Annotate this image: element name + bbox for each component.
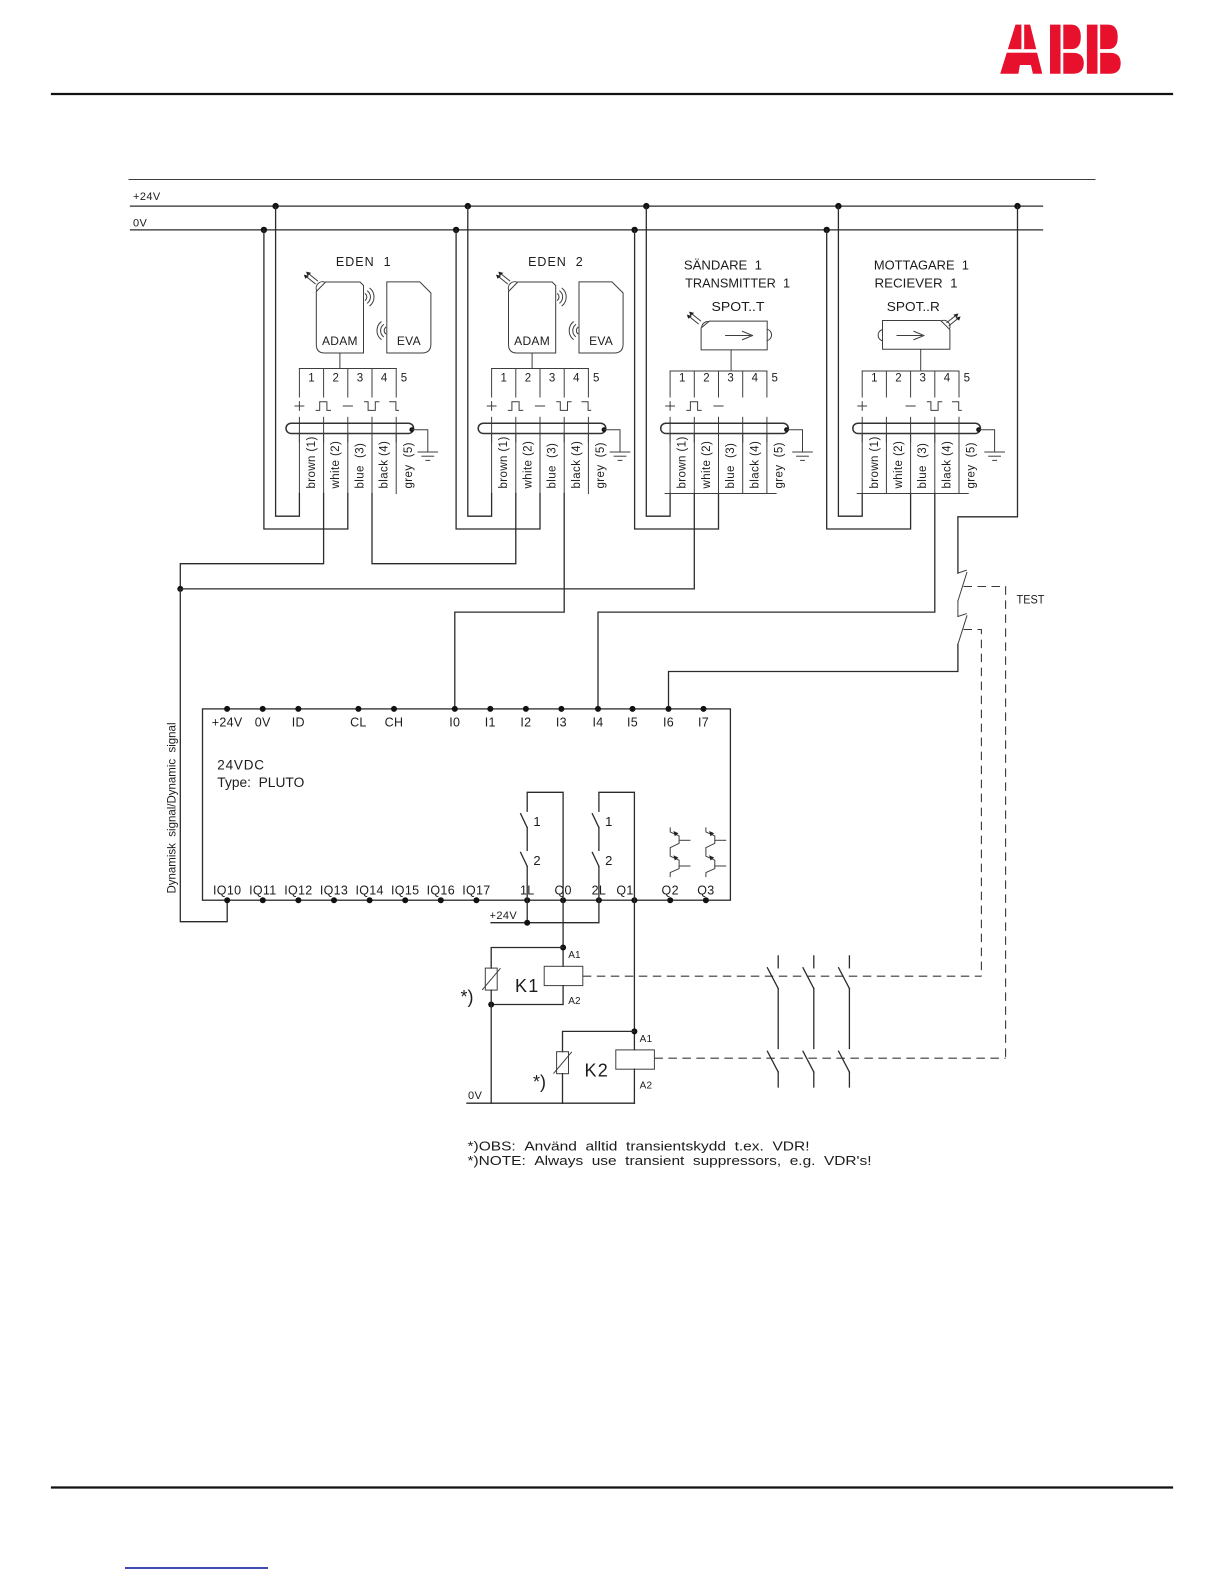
TEST switch contact a bbox=[958, 570, 967, 601]
EDEN 1 pin function symbols bbox=[295, 402, 399, 411]
EDEN 2 upper coded-signal arcs bbox=[557, 288, 566, 306]
svg-text:0V: 0V bbox=[133, 218, 148, 230]
+24V supply stub line to 1L and 2L bbox=[491, 900, 599, 923]
SPOT..T +24V tap junction bbox=[643, 203, 649, 209]
EDEN 1 wire stubs through cable bbox=[299, 417, 396, 442]
safety PLC PLUTO outline bbox=[203, 709, 731, 900]
svg-text:1: 1 bbox=[871, 372, 877, 384]
EDEN 2 0V tap junction bbox=[453, 227, 459, 233]
K1 coil actuator dashed line bbox=[583, 975, 982, 977]
EDEN 1 ADAM connector boss bbox=[316, 282, 325, 291]
svg-text:A1: A1 bbox=[640, 1034, 653, 1045]
relay contact 1 at 598.9 bbox=[592, 814, 612, 851]
svg-text:4: 4 bbox=[752, 372, 759, 384]
svg-text:1: 1 bbox=[605, 814, 612, 829]
PLUTO bottom terminals bbox=[224, 897, 709, 903]
K1 main contact phase 1 bbox=[767, 956, 778, 989]
EDEN 2 EVA housing bbox=[579, 282, 623, 353]
svg-text:I6: I6 bbox=[663, 715, 674, 729]
svg-text:ADAM: ADAM bbox=[514, 334, 550, 348]
device block titles SPOT..R bbox=[874, 259, 969, 315]
EDEN 2 pin numbers 1 2 3 4 5 bbox=[500, 372, 599, 384]
svg-text:TEST: TEST bbox=[1017, 592, 1046, 606]
svg-text:ADAM: ADAM bbox=[322, 334, 358, 348]
relay contact 1 at 527.2 bbox=[521, 814, 541, 851]
svg-text:black (4): black (4) bbox=[571, 441, 583, 489]
EDEN 2 pin terminal lines 1-5 bbox=[492, 369, 589, 398]
SPOT..T cable shield junction bbox=[784, 427, 789, 432]
TEST actuator dashed link to K1 contacts bbox=[964, 630, 982, 977]
EDEN 2 earth ground symbol bbox=[610, 452, 630, 460]
EDEN 1 +24V drop wire to pin 1 (brown) bbox=[276, 206, 300, 516]
wire EDEN1 black to EDEN2 white (dynamic chain) bbox=[372, 494, 516, 564]
wire EDEN1 white (dynamic signal in) to node D bbox=[180, 494, 323, 589]
SPOT..R shield wire to earth bbox=[979, 430, 995, 452]
SPOT..R 0V tap junction bbox=[824, 227, 830, 233]
svg-text:blue (3): blue (3) bbox=[725, 443, 737, 489]
svg-text:24VDC: 24VDC bbox=[217, 758, 265, 773]
wire +24V rail to TEST switch bbox=[1014, 203, 1020, 209]
EDEN 1 ADAM cable arrow bbox=[304, 272, 318, 284]
svg-text:*)NOTE: Always use transien: *)NOTE: Always use transient suppressors… bbox=[468, 1154, 872, 1168]
varistor at K1 bbox=[483, 968, 501, 990]
relay contact 2 at 527.2 bbox=[521, 852, 541, 900]
svg-text:EDEN 2: EDEN 2 bbox=[528, 255, 584, 269]
svg-text:CL: CL bbox=[350, 715, 367, 729]
svg-text:Type: PLUTO: Type: PLUTO bbox=[217, 775, 304, 790]
SPOT..T beam arrow bbox=[726, 331, 753, 339]
EDEN 2 lower coded-signal arcs bbox=[569, 322, 578, 340]
wire Q0 to K1 A1 bbox=[562, 900, 564, 966]
wire K1 A2 node to 0V bbox=[490, 1005, 492, 1104]
svg-text:I4: I4 bbox=[592, 715, 603, 729]
wire Q1 to K2 A1 bbox=[633, 900, 635, 1050]
wire EDEN2 black to input I0 bbox=[455, 494, 564, 709]
EDEN 2 pin function symbols bbox=[487, 402, 591, 411]
SPOT..T earth ground symbol bbox=[793, 452, 813, 460]
svg-text:brown (1): brown (1) bbox=[869, 436, 881, 488]
EDEN 1 +24V tap junction bbox=[272, 203, 278, 209]
K2 main contact phase 3 bbox=[839, 1051, 850, 1087]
svg-text:IQ12: IQ12 bbox=[284, 883, 312, 897]
SPOT..R housing bbox=[883, 321, 950, 350]
TEST actuator dashed link to K2 contacts bbox=[964, 587, 1006, 1059]
svg-text:2: 2 bbox=[525, 372, 531, 384]
EDEN 2 cable sheath bbox=[478, 423, 606, 433]
EDEN 2 +24V tap junction bbox=[465, 203, 471, 209]
TEST switch link a-b bbox=[957, 601, 959, 617]
K1 main contact phase 2 bbox=[803, 956, 814, 989]
svg-text:K2: K2 bbox=[585, 1061, 609, 1081]
SPOT..R conductor labels bbox=[869, 436, 978, 489]
svg-text:black (4): black (4) bbox=[749, 441, 761, 489]
svg-text:CH: CH bbox=[385, 715, 404, 729]
svg-text:+24V: +24V bbox=[490, 910, 518, 922]
SPOT..R pin header top line bbox=[862, 370, 959, 372]
svg-text:4: 4 bbox=[573, 372, 580, 384]
svg-text:grey (5): grey (5) bbox=[966, 442, 978, 488]
ABB logo bbox=[998, 25, 1123, 74]
svg-text:*): *) bbox=[461, 987, 474, 1007]
wire node D to transmitter white bbox=[180, 494, 694, 589]
svg-text:1: 1 bbox=[533, 814, 540, 829]
PLUTO top terminals bbox=[224, 706, 706, 712]
svg-text:IQ14: IQ14 bbox=[355, 883, 383, 897]
wire node D to IQ10 bbox=[180, 589, 227, 922]
svg-text:+24V: +24V bbox=[133, 191, 161, 203]
diagram top border line bbox=[129, 179, 1095, 181]
svg-text:0V: 0V bbox=[255, 715, 271, 729]
header rule bbox=[52, 93, 1172, 95]
EDEN 1 EVA housing bbox=[387, 282, 431, 353]
svg-text:1: 1 bbox=[500, 372, 506, 384]
K2 coil actuator dashed line bbox=[654, 1057, 1005, 1059]
contactor coil K1 bbox=[544, 966, 583, 985]
svg-text:3: 3 bbox=[919, 372, 925, 384]
SPOT..R conductor lines in label area bbox=[862, 434, 959, 494]
SPOT..R connector boss bbox=[941, 320, 950, 329]
svg-text:2: 2 bbox=[533, 853, 540, 868]
EDEN 1 pin numbers 1 2 3 4 5 bbox=[308, 372, 407, 384]
svg-text:black (4): black (4) bbox=[379, 441, 391, 489]
SPOT..T shield wire to earth bbox=[787, 430, 803, 452]
EDEN 1 conductor lines in label area bbox=[299, 434, 396, 494]
EDEN 2 cable shield junction bbox=[602, 427, 607, 432]
svg-text:3: 3 bbox=[357, 372, 363, 384]
SPOT..R +24V drop wire to pin 1 (brown) bbox=[838, 206, 862, 516]
SPOT..R unused-pin end line bbox=[857, 493, 968, 495]
svg-text:I1: I1 bbox=[485, 715, 496, 729]
SPOT..T conductor labels bbox=[677, 436, 786, 489]
svg-text:black (4): black (4) bbox=[941, 441, 953, 489]
EDEN 2 ADAM connector boss bbox=[508, 282, 517, 291]
PLUTO bottom terminal labels bbox=[213, 883, 714, 897]
K2 varistor lower wire bbox=[562, 1074, 564, 1104]
+24V rail bbox=[131, 205, 1043, 207]
K2 main contact phase 2 bbox=[803, 1051, 814, 1087]
svg-text:IQ13: IQ13 bbox=[320, 883, 348, 897]
svg-text:I7: I7 bbox=[698, 715, 709, 729]
SPOT..T wire stubs through cable bbox=[670, 417, 767, 442]
PLUTO semiconductor output symbol at 705.9 bbox=[706, 828, 726, 877]
K2 main contact phase 1 bbox=[767, 1051, 778, 1087]
svg-text:5: 5 bbox=[964, 372, 970, 384]
svg-text:Q2: Q2 bbox=[662, 883, 679, 897]
SPOT..R wire stubs through cable bbox=[862, 417, 959, 442]
footer link underline bbox=[125, 1567, 268, 1569]
svg-text:MOTTAGARE 1: MOTTAGARE 1 bbox=[874, 259, 969, 273]
svg-text:RECIEVER 1: RECIEVER 1 bbox=[875, 277, 958, 291]
svg-text:SPOT..T: SPOT..T bbox=[712, 300, 765, 314]
SPOT..R pigtail bbox=[920, 350, 922, 371]
svg-text:SPOT..R: SPOT..R bbox=[887, 300, 940, 314]
svg-text:5: 5 bbox=[593, 372, 599, 384]
SPOT..R beam arrow bbox=[897, 331, 924, 339]
device block titles SPOT..T bbox=[684, 259, 790, 315]
SPOT..T cable sheath bbox=[661, 423, 789, 433]
EDEN 2 pin header top line bbox=[492, 368, 589, 370]
EDEN 2 ADAM pigtail bbox=[531, 353, 533, 369]
svg-text:EVA: EVA bbox=[397, 334, 421, 348]
svg-text:I3: I3 bbox=[556, 715, 567, 729]
SPOT..R cable sheath bbox=[853, 423, 981, 433]
svg-text:SÄNDARE 1: SÄNDARE 1 bbox=[684, 259, 762, 273]
svg-text:IQ17: IQ17 bbox=[462, 883, 490, 897]
svg-text:2: 2 bbox=[703, 372, 709, 384]
svg-text:I0: I0 bbox=[449, 715, 460, 729]
svg-text:3: 3 bbox=[727, 372, 733, 384]
K1 A2 wire bbox=[491, 986, 563, 1005]
EDEN 1 0V drop wire to pin 3 (blue) bbox=[264, 230, 348, 529]
wire receiver black to input I4 bbox=[598, 494, 935, 709]
EDEN 1 lower coded-signal arcs bbox=[377, 322, 386, 340]
TEST switch contact b bbox=[958, 614, 967, 645]
svg-text:4: 4 bbox=[381, 372, 388, 384]
svg-text:brown (1): brown (1) bbox=[498, 436, 510, 488]
svg-text:5: 5 bbox=[401, 372, 407, 384]
phase 2 link bbox=[813, 989, 815, 1049]
EDEN 1 0V tap junction bbox=[261, 227, 267, 233]
K2 varistor branch wire bbox=[563, 1031, 635, 1051]
node D junction bbox=[177, 586, 183, 592]
svg-text:Q1: Q1 bbox=[616, 883, 633, 897]
EDEN 2 shield wire to earth bbox=[604, 430, 620, 452]
EDEN 2 +24V drop wire to pin 1 (brown) bbox=[468, 206, 492, 516]
SPOT..R pin function symbols bbox=[858, 402, 962, 411]
svg-text:TRANSMITTER 1: TRANSMITTER 1 bbox=[685, 277, 790, 291]
EDEN 1 pin header top line bbox=[299, 368, 396, 370]
svg-text:A1: A1 bbox=[568, 950, 581, 961]
SPOT..T pin header top line bbox=[670, 370, 767, 372]
SPOT..R pin numbers 1 2 3 4 5 bbox=[871, 372, 970, 384]
svg-text:+24V: +24V bbox=[212, 715, 243, 729]
svg-text:4: 4 bbox=[944, 372, 951, 384]
EDEN 2 0V drop wire to pin 3 (blue) bbox=[456, 230, 540, 529]
svg-text:white (2): white (2) bbox=[330, 441, 342, 490]
svg-text:A2: A2 bbox=[568, 996, 581, 1007]
K2 A2 wire bbox=[633, 1069, 635, 1103]
svg-text:white (2): white (2) bbox=[893, 441, 905, 490]
svg-text:brown (1): brown (1) bbox=[306, 436, 318, 488]
svg-text:0V: 0V bbox=[468, 1090, 483, 1102]
1L junction bbox=[524, 920, 530, 926]
contactor coil K2 bbox=[616, 1050, 655, 1069]
svg-text:blue (3): blue (3) bbox=[354, 443, 366, 489]
K2 A1 junction bbox=[631, 1028, 637, 1034]
SPOT..R earth ground symbol bbox=[985, 452, 1005, 460]
svg-text:1: 1 bbox=[679, 372, 685, 384]
svg-text:A2: A2 bbox=[640, 1080, 653, 1091]
SPOT..R +24V tap junction bbox=[835, 203, 841, 209]
svg-text:IQ16: IQ16 bbox=[427, 883, 455, 897]
svg-text:IQ10: IQ10 bbox=[213, 883, 241, 897]
svg-text:I5: I5 bbox=[627, 715, 638, 729]
K1 varistor branch wire bbox=[491, 948, 563, 969]
EDEN 2 wire stubs through cable bbox=[492, 417, 589, 442]
SPOT..R cable shield junction bbox=[976, 427, 981, 432]
footer rule bbox=[52, 1486, 1172, 1488]
svg-text:2: 2 bbox=[605, 853, 612, 868]
K1 varistor lower wire bbox=[490, 990, 492, 1004]
EDEN 1 upper coded-signal arcs bbox=[365, 288, 374, 306]
SPOT..R 0V drop wire to pin 3 (blue) bbox=[827, 230, 911, 529]
svg-text:3: 3 bbox=[549, 372, 555, 384]
svg-text:ID: ID bbox=[292, 715, 305, 729]
svg-text:2: 2 bbox=[332, 372, 338, 384]
svg-text:brown (1): brown (1) bbox=[677, 436, 689, 488]
svg-text:1: 1 bbox=[308, 372, 314, 384]
svg-text:blue (3): blue (3) bbox=[547, 443, 559, 489]
EDEN 1 cable shield junction bbox=[409, 427, 414, 432]
EDEN 2 conductor lines in label area bbox=[492, 434, 589, 494]
svg-text:white (2): white (2) bbox=[701, 441, 713, 490]
SPOT..T housing bbox=[701, 321, 767, 350]
SPOT..T pin numbers 1 2 3 4 5 bbox=[679, 372, 778, 384]
EDEN 1 earth ground symbol bbox=[418, 452, 438, 460]
SPOT..R pin terminal lines 1-5 bbox=[862, 371, 959, 397]
svg-text:white (2): white (2) bbox=[522, 441, 534, 490]
EDEN 1 ADAM pigtail bbox=[339, 353, 341, 369]
1L drop wire bbox=[526, 900, 528, 923]
svg-text:Dynamisk signal/Dynamic sign: Dynamisk signal/Dynamic signal bbox=[166, 723, 179, 894]
svg-text:EDEN 1: EDEN 1 bbox=[336, 255, 392, 269]
SPOT..T pigtail bbox=[730, 350, 732, 371]
PLUTO relay output bracket 634.4 bbox=[599, 792, 635, 900]
SPOT..T conductor lines in label area bbox=[670, 434, 767, 494]
EDEN 2 ADAM housing bbox=[509, 282, 556, 353]
svg-text:*)OBS: Använd alltid transi: *)OBS: Använd alltid transientskydd t.ex… bbox=[468, 1140, 810, 1154]
SPOT..T +24V drop wire to pin 1 (brown) bbox=[646, 206, 670, 516]
K1 main contact phase 3 bbox=[839, 956, 850, 989]
PLUTO relay output bracket 563.1 bbox=[527, 792, 563, 900]
EDEN 2 ADAM cable arrow bbox=[496, 272, 510, 284]
relay contact 2 at 598.9 bbox=[592, 852, 612, 900]
svg-text:Q3: Q3 bbox=[697, 883, 714, 897]
phase 3 link bbox=[848, 989, 850, 1049]
PLUTO semiconductor output symbol at 670.2 bbox=[670, 828, 690, 877]
svg-text:*): *) bbox=[533, 1072, 546, 1092]
EDEN 1 ADAM housing bbox=[316, 282, 363, 353]
K1 A2 junction bbox=[488, 1002, 494, 1008]
svg-text:blue (3): blue (3) bbox=[917, 443, 929, 489]
svg-text:K1: K1 bbox=[515, 976, 539, 996]
EDEN 1 pin terminal lines 1-5 bbox=[299, 369, 396, 398]
K1 A1 junction bbox=[560, 945, 566, 951]
svg-text:5: 5 bbox=[771, 372, 777, 384]
EDEN 1 shield wire to earth bbox=[412, 430, 428, 452]
SPOT..T lens boss bbox=[767, 329, 771, 340]
SPOT..T 0V tap junction bbox=[631, 227, 637, 233]
SPOT..T pin terminal lines 1-5 bbox=[670, 371, 767, 397]
SPOT..R lens boss bbox=[878, 330, 882, 341]
svg-text:IQ11: IQ11 bbox=[249, 883, 276, 897]
svg-text:I2: I2 bbox=[520, 715, 531, 729]
SPOT..R cable arrow bbox=[947, 313, 961, 325]
phase 1 link bbox=[777, 989, 779, 1049]
svg-text:2: 2 bbox=[895, 372, 901, 384]
svg-text:grey (5): grey (5) bbox=[774, 442, 786, 488]
svg-text:EVA: EVA bbox=[589, 334, 613, 348]
SPOT..T cable arrow bbox=[687, 312, 701, 324]
varistor at K2 bbox=[554, 1052, 572, 1074]
svg-text:grey (5): grey (5) bbox=[595, 442, 607, 488]
svg-text:IQ15: IQ15 bbox=[391, 883, 419, 897]
PLUTO top terminal labels bbox=[212, 715, 709, 729]
SPOT..T connector boss bbox=[702, 322, 709, 328]
svg-text:grey (5): grey (5) bbox=[403, 442, 415, 488]
0V rail bbox=[131, 229, 1043, 231]
EDEN 1 cable sheath bbox=[286, 423, 414, 433]
EDEN 2 conductor labels bbox=[498, 436, 607, 489]
SPOT..T 0V drop wire to pin 3 (blue) bbox=[635, 230, 719, 529]
SPOT..T unused-pin end line bbox=[665, 493, 776, 495]
wire TEST switch to input I6 bbox=[669, 644, 958, 709]
EDEN 1 conductor labels bbox=[306, 436, 415, 489]
SPOT..T pin function symbols bbox=[666, 402, 723, 411]
0V return line bbox=[467, 1102, 635, 1104]
